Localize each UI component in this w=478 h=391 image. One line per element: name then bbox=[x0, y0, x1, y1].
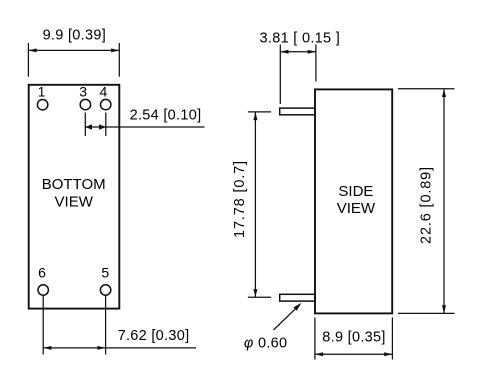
dimension 2.54 extension line right bbox=[105, 113, 107, 137]
svg-text:3: 3 bbox=[79, 83, 87, 99]
leader arrowhead for pin diameter bbox=[293, 303, 301, 311]
dimension 7.62 line bbox=[43, 347, 105, 349]
dimension 22.6 bottom extension line bbox=[398, 312, 455, 314]
dimension 3.81 extension line left bbox=[279, 45, 281, 105]
svg-text:VIEW: VIEW bbox=[337, 200, 376, 217]
svg-text:2.54 [0.10]: 2.54 [0.10] bbox=[130, 107, 202, 123]
dimension 22.6 line bbox=[443, 89, 445, 314]
dimension 7.62 arrow right bbox=[97, 346, 105, 350]
pin 1 pad bbox=[37, 100, 47, 110]
svg-text:4: 4 bbox=[100, 83, 108, 99]
dimension 17.78 arrow down bbox=[253, 289, 257, 297]
dimension 17.78 arrow up bbox=[253, 112, 257, 120]
dimension 2.54 arrow right bbox=[99, 124, 106, 129]
svg-text:17.78 [0.7]: 17.78 [0.7] bbox=[232, 160, 248, 238]
dimension 9.9 arrow right bbox=[111, 48, 119, 52]
svg-text:VIEW: VIEW bbox=[55, 194, 94, 211]
svg-text:3.81 [ 0.15 ]: 3.81 [ 0.15 ] bbox=[260, 30, 341, 46]
svg-text:BOTTOM: BOTTOM bbox=[42, 176, 106, 193]
svg-text:7.62 [0.30]: 7.62 [0.30] bbox=[118, 328, 190, 344]
dimension 7.62 arrow left bbox=[43, 346, 51, 350]
dimension 8.9 arrow right bbox=[384, 352, 392, 356]
dimension 3.81 arrow left bbox=[280, 50, 288, 54]
dimension 2.54 extension line left bbox=[84, 113, 86, 137]
dimension 3.81 extension line right bbox=[315, 45, 317, 82]
svg-text:6: 6 bbox=[38, 264, 46, 280]
pin 6 pad bbox=[38, 285, 48, 295]
dimension 17.78 top tick bbox=[248, 111, 271, 113]
dimension 9.9 line bbox=[28, 49, 119, 51]
svg-text:8.9 [0.35]: 8.9 [0.35] bbox=[322, 330, 385, 346]
svg-text:SIDE: SIDE bbox=[338, 183, 373, 200]
dimension 2.54 line and leader line bbox=[85, 126, 204, 128]
dimension 8.9 arrow left bbox=[315, 352, 323, 356]
pin 5 pad bbox=[100, 285, 110, 295]
dimension 7.62 leader line bbox=[106, 347, 196, 349]
dimension 17.78 line bbox=[254, 112, 256, 297]
dimension 22.6 top extension line bbox=[398, 88, 455, 90]
dimension 9.9 arrow left bbox=[28, 48, 36, 52]
side view top pin lead bbox=[280, 108, 316, 115]
dimension 3.81 line bbox=[280, 51, 316, 53]
dimension 2.54 arrow left bbox=[85, 124, 92, 129]
dimension 8.9 line bbox=[315, 353, 393, 355]
svg-text:9.9 [0.39]: 9.9 [0.39] bbox=[43, 28, 106, 44]
dimension 22.6 arrow up bbox=[442, 89, 446, 97]
dimension 9.9 extension line right bbox=[118, 43, 120, 77]
dimension 22.6 arrow down bbox=[442, 305, 446, 313]
leader line for pin diameter 0.60 bbox=[274, 307, 298, 330]
bottom view body outline bbox=[29, 85, 120, 309]
dimension 9.9 extension line left bbox=[27, 43, 29, 77]
svg-text:1: 1 bbox=[38, 84, 46, 100]
pin 3 pad bbox=[80, 99, 90, 109]
dimension 8.9 extension line right bbox=[391, 318, 393, 360]
dimension 3.81 arrow right bbox=[308, 50, 316, 54]
dimension 8.9 extension line left bbox=[314, 318, 316, 360]
dimension 7.62 extension line right bbox=[105, 296, 107, 355]
side view bottom pin lead bbox=[280, 294, 316, 301]
svg-text:φ 0.60: φ 0.60 bbox=[244, 336, 288, 352]
dimension 7.62 extension line left bbox=[42, 296, 44, 355]
pin 4 pad bbox=[101, 99, 111, 109]
dimension 17.78 bottom tick bbox=[248, 296, 271, 298]
svg-text:22.6 [0.89]: 22.6 [0.89] bbox=[418, 166, 434, 244]
side view body outline bbox=[315, 89, 392, 313]
svg-text:5: 5 bbox=[101, 264, 109, 280]
